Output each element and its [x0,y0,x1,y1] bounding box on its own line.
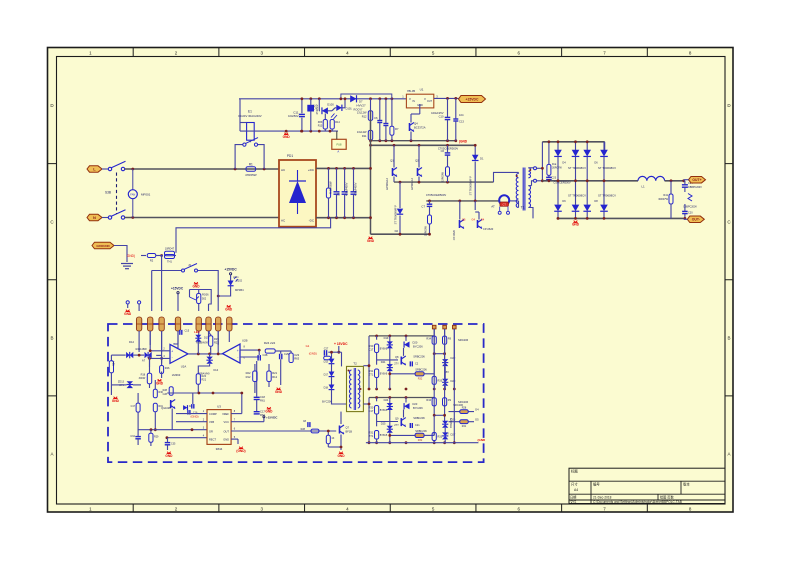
svg-text:+15VDC: +15VDC [225,268,238,272]
svg-text:+DC: +DC [308,168,315,172]
svg-text:78L05: 78L05 [407,89,416,93]
svg-text:(GND): (GND) [309,352,317,356]
svg-text:FAN: FAN [130,193,135,197]
svg-text:OUT: OUT [224,430,230,434]
svg-text:R64: R64 [260,413,265,417]
svg-text:R21: R21 [202,379,207,382]
svg-text:GND: GND [223,438,229,442]
svg-text:10RD47: 10RD47 [165,248,175,251]
svg-text:R1: R1 [249,162,253,166]
svg-text:OUT: OUT [427,100,433,103]
svg-text:27Y: 27Y [394,423,399,427]
svg-text:R15: R15 [214,338,219,341]
svg-text:GND: GND [337,454,345,458]
svg-text:R30: R30 [369,344,374,348]
svg-text:COMP: COMP [209,412,217,416]
svg-text:编号: 编号 [593,482,600,487]
svg-text:R14: R14 [335,121,340,124]
svg-text:BYB-B: BYB-B [380,409,388,412]
svg-text:C17: C17 [369,348,374,352]
svg-text:R28: R28 [301,428,306,431]
svg-text:CSMCER500V: CSMCER500V [553,181,571,185]
svg-text:C7: C7 [421,205,425,209]
svg-text:T1: T1 [521,205,525,209]
svg-text:(GND): (GND) [190,415,198,419]
svg-text:VFB: VFB [209,420,214,424]
svg-text:R34: R34 [426,337,431,340]
svg-text:R28: R28 [163,389,168,392]
svg-text:Q8: Q8 [395,355,399,359]
svg-text:R12: R12 [272,375,277,379]
svg-text:D21: D21 [381,360,386,364]
svg-text:GND: GND [225,307,233,311]
svg-text:AT: AT [491,204,495,208]
svg-text:ST TR0608CV: ST TR0608CV [568,194,586,198]
svg-text:R11: R11 [362,134,367,138]
svg-text:MP3B4: MP3B4 [235,288,244,292]
svg-text:TH1: TH1 [167,261,172,264]
svg-text:R29: R29 [154,436,159,439]
svg-text:R2: R2 [150,258,154,262]
svg-text:BYC206: BYC206 [322,400,332,404]
svg-text:A: A [727,452,730,457]
svg-text:D8: D8 [594,199,598,203]
svg-text:GND): GND) [127,254,135,258]
svg-text:R61: R61 [260,399,265,403]
svg-text:R30: R30 [369,406,374,410]
svg-text:ZT1: ZT1 [369,434,374,438]
svg-text:R34: R34 [426,399,431,402]
svg-text:C13: C13 [459,120,464,124]
svg-text:3844: 3844 [216,447,223,451]
svg-text:尺寸: 尺寸 [571,482,578,487]
svg-text:文件: 文件 [570,499,577,504]
svg-text:ST TR0608CV: ST TR0608CV [568,166,586,170]
svg-text:+: + [237,349,239,353]
svg-text:104: 104 [459,113,464,117]
svg-text:13L12W: 13L12W [357,130,367,134]
svg-text:版本: 版本 [683,482,690,487]
svg-text:R31: R31 [369,431,374,435]
svg-text:1N4148W: 1N4148W [135,347,147,351]
svg-text:BF1B: BF1B [346,430,353,434]
svg-text:CBBPC200V: CBBPC200V [688,186,702,189]
svg-text:PD1: PD1 [287,154,293,158]
svg-text:D22: D22 [451,356,456,360]
svg-text:U3: U3 [217,404,221,408]
svg-text:CT05CKER500V: CT05CKER500V [426,193,447,197]
svg-text:C11: C11 [293,111,299,115]
svg-text:+15VDC: +15VDC [466,97,479,101]
svg-text:GR: GR [209,430,213,434]
svg-text:A: A [337,150,339,154]
svg-text:MF001: MF001 [141,192,151,196]
svg-text:13L12W: 13L12W [357,111,367,115]
svg-text:R7: R7 [395,127,399,131]
svg-text:C3: C3 [336,192,340,196]
svg-text:Q9: Q9 [395,417,399,421]
svg-text:CP-0620: CP-0620 [452,229,456,240]
svg-text:BYB-B: BYB-B [380,372,388,375]
svg-text:C17: C17 [369,409,374,413]
svg-text:C20: C20 [688,212,693,215]
svg-text:SRBC206: SRBC206 [415,429,427,433]
svg-text:D1: D1 [480,157,484,161]
svg-text:R31: R31 [369,369,374,373]
svg-text:VCC: VCC [224,420,230,424]
svg-text:ST TR0608CV: ST TR0608CV [598,166,616,170]
svg-text:Q4: Q4 [414,122,418,126]
svg-text:D6: D6 [562,199,566,203]
svg-text:ST TR0608MF P: ST TR0608MF P [394,205,398,225]
svg-text:LED: LED [194,330,199,334]
svg-text:C6: C6 [374,116,378,120]
svg-text:CP-0620: CP-0620 [483,227,494,231]
svg-text:C10: C10 [439,115,444,119]
svg-text:D20: D20 [413,340,418,344]
svg-text:OUT-: OUT- [692,218,700,222]
svg-text:S3B: S3B [105,191,111,195]
svg-text:R22: R22 [246,371,251,375]
svg-text:GROUND: GROUND [96,244,110,248]
svg-text:R32: R32 [418,377,423,380]
svg-text:C23: C23 [552,177,557,180]
svg-text:C28: C28 [163,393,168,396]
svg-text:DC24V 30AC240V: DC24V 30AC240V [238,114,261,118]
svg-text:(GND: (GND [478,438,486,442]
svg-text:D100: D100 [327,102,334,106]
svg-text:D27: D27 [451,433,456,437]
svg-text:GND: GND [124,312,132,316]
svg-text:D13: D13 [324,361,329,364]
svg-text:SRC206: SRC206 [453,403,463,407]
svg-text:D4: D4 [562,161,566,165]
svg-text:FU8: FU8 [337,142,342,146]
svg-text:C34: C34 [130,435,135,438]
svg-text:R33: R33 [438,379,443,382]
svg-text:104250V: 104250V [288,114,299,118]
svg-text:C35: C35 [171,443,176,446]
svg-text:C:\Documents and Settings\Admi: C:\Documents and Settings\Administrator\… [593,499,682,504]
svg-text:绘图 页数: 绘图 页数 [660,495,674,500]
svg-text:R41: R41 [462,425,467,428]
svg-text:R28: R28 [462,407,467,410]
svg-text:GND: GND [275,390,283,394]
svg-text:T2: T2 [353,362,357,366]
svg-text:R34: R34 [113,361,116,366]
svg-text:C28: C28 [263,353,268,357]
svg-text:47R05W: 47R05W [245,173,257,177]
svg-text:ST TR0608CV: ST TR0608CV [598,194,616,198]
svg-text:470uF400V: 470uF400V [353,182,357,196]
svg-text:C18: C18 [260,395,265,399]
svg-text:robm: robm [233,276,238,279]
svg-text:CT05CKER500V: CT05CKER500V [438,147,459,151]
svg-text:D101: D101 [346,107,353,111]
svg-text:GP08G12: GP08G12 [385,177,389,189]
svg-text:D2: D2 [395,229,399,233]
svg-text:30R07W: 30R07W [658,198,668,201]
svg-text:U1: U1 [420,88,424,92]
svg-text:D14: D14 [214,369,219,372]
svg-text:RECT: RECT [209,438,216,442]
svg-text:GND: GND [165,454,173,458]
svg-text:R13: R13 [318,125,323,128]
svg-text:D23: D23 [413,402,418,406]
svg-text:+ 15VDC: + 15VDC [334,342,348,346]
svg-text:VREF: VREF [222,412,229,416]
svg-text:SRBC206: SRBC206 [413,354,425,358]
svg-text:R21: R21 [272,371,277,375]
svg-text:(GND: (GND [459,140,468,144]
svg-text:R32: R32 [418,439,423,442]
svg-text:N: N [93,215,96,220]
svg-text:QG102B: QG102B [161,407,171,410]
svg-text:+: + [171,350,173,354]
svg-text:G5: G5 [475,418,479,422]
svg-text:E1: E1 [248,109,252,113]
svg-text:日期: 日期 [570,495,576,500]
svg-text:R22: R22 [214,342,219,345]
svg-text:ZD13: ZD13 [118,380,125,383]
svg-text:D18: D18 [324,386,329,389]
svg-text:C21: C21 [415,424,420,427]
svg-text:B: B [727,335,730,340]
svg-text:D17: D17 [324,373,329,376]
svg-text:GND: GND [192,284,200,288]
svg-text:1K: 1K [331,437,334,440]
svg-text:HVV27: HVV27 [356,104,366,108]
svg-text:BY60Y72: BY60Y72 [450,417,453,428]
svg-text:V: V [424,97,426,101]
svg-text:IN: IN [413,100,416,103]
svg-text:C23: C23 [294,353,299,357]
svg-text:A: A [50,452,53,457]
svg-text:A7: A7 [142,358,146,362]
svg-text:Q7: Q7 [346,426,350,430]
svg-text:ZT1: ZT1 [369,373,374,377]
svg-text:G1: G1 [306,344,310,348]
svg-text:BYB-B: BYB-B [380,434,388,437]
svg-text:U2A: U2A [181,365,187,369]
svg-text:G4: G4 [475,408,479,412]
svg-text:R33: R33 [438,436,443,439]
svg-text:D19: D19 [384,336,389,340]
svg-text:R12: R12 [246,375,251,379]
svg-text:30R07W: 30R07W [552,167,562,170]
svg-text:B: B [50,335,53,340]
svg-text:502: 502 [202,298,207,301]
svg-text:C15: C15 [185,330,190,333]
svg-text:21-Dec-2018: 21-Dec-2018 [593,496,612,500]
svg-text:SRBC206: SRBC206 [413,416,425,420]
svg-text:U2B: U2B [242,339,248,343]
svg-text:300W: 300W [139,377,146,380]
svg-text:GP08G12: GP08G12 [410,177,414,189]
svg-text:-DC: -DC [309,219,315,223]
svg-text:RG06: RG06 [202,294,209,297]
svg-text:GND: GND [367,239,375,243]
svg-text:C17: C17 [131,405,136,408]
svg-text:100uF25V: 100uF25V [431,111,444,115]
svg-text:SRC206: SRC206 [458,338,469,342]
svg-text:470uF400V: 470uF400V [344,182,348,196]
svg-text:L1: L1 [641,184,645,188]
svg-text:+15VDC: +15VDC [266,415,278,419]
svg-text:LM393: LM393 [172,373,181,377]
svg-text:R26: R26 [165,367,170,370]
svg-text:R24 224: R24 224 [264,341,276,345]
svg-text:R41: R41 [663,194,668,197]
svg-text:D12: D12 [129,340,134,344]
svg-text:OUT+: OUT+ [692,178,701,182]
svg-text:D102: D102 [236,280,243,283]
svg-text:D25: D25 [381,422,386,426]
svg-text:R18: R18 [141,374,146,377]
svg-text:R20: R20 [202,375,207,378]
svg-text:CT: CT [503,203,507,206]
svg-text:D24: D24 [384,398,389,402]
svg-text:BYC206: BYC206 [413,344,423,348]
svg-text:A4: A4 [574,488,578,492]
svg-text:22R05W: 22R05W [441,171,445,182]
svg-text:GND: GND [112,399,120,403]
svg-text:标题: 标题 [571,469,578,474]
svg-text:SRBC206: SRBC206 [415,368,427,372]
svg-text:V: V [409,97,411,101]
svg-text:R63: R63 [294,357,299,361]
svg-text:GND: GND [283,135,291,139]
svg-text:BYC206: BYC206 [413,406,423,410]
svg-text:(GND): (GND) [236,449,245,453]
svg-text:22R05W: 22R05W [424,225,428,236]
svg-text:27Y: 27Y [394,362,399,366]
svg-text:R 22k05W: R 22k05W [329,181,333,194]
svg-text:+15VDC: +15VDC [171,286,184,290]
svg-text:GND: GND [156,381,164,385]
svg-text:D6: D6 [594,161,598,165]
svg-text:BYB-B: BYB-B [380,347,388,350]
svg-text:R12: R12 [362,115,367,119]
svg-text:D23: D23 [451,379,456,383]
svg-text:GND: GND [572,223,580,227]
svg-text:GND: GND [265,409,273,413]
svg-text:ST TR0608MF P: ST TR0608MF P [469,176,473,196]
svg-text:BC3372A: BC3372A [414,125,426,129]
